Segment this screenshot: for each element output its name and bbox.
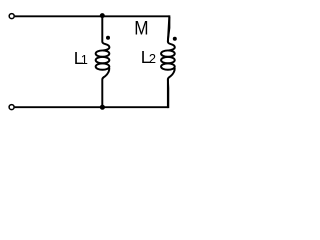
wire top [15, 15, 170, 17]
inductor L1 bottom lead [102, 68, 109, 107]
wire bottom [15, 106, 169, 108]
inductor L1 top lead [102, 17, 109, 50]
terminal bottom-left [9, 105, 14, 110]
terminal top-left [9, 14, 14, 19]
inductor L2 bottom lead [168, 68, 175, 107]
wire right vertical top corner [168, 15, 170, 42]
junction dot bottom [100, 105, 105, 110]
wire right vertical bottom corner [167, 79, 169, 109]
svg-text:1: 1 [81, 52, 88, 67]
svg-text:M: M [134, 19, 148, 40]
junction dot top [100, 13, 105, 18]
svg-text:2: 2 [149, 51, 156, 66]
inductor L2 top lead [168, 17, 175, 50]
inductor L1 loops [96, 50, 110, 56]
polarity dot L1 [106, 36, 110, 40]
inductor L2 loops [161, 50, 175, 56]
polarity dot L2 [173, 37, 177, 41]
